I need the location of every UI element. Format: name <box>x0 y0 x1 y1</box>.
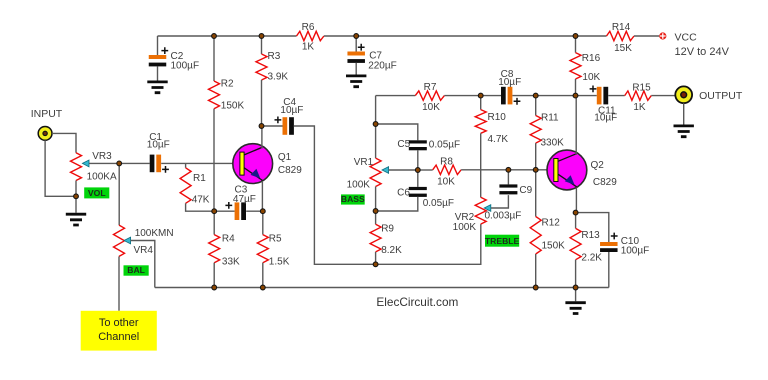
resistor R8 <box>418 169 433 171</box>
wire VR1 wiper to R8 node <box>389 169 418 171</box>
svg-text:8.2K: 8.2K <box>381 245 402 256</box>
svg-text:15K: 15K <box>614 43 632 54</box>
wire top supply rail left segment <box>158 35 297 37</box>
svg-text:BASS: BASS <box>341 194 365 204</box>
wire Q2 emitter <box>575 188 577 213</box>
node VR3 bottom <box>74 194 79 199</box>
svg-text:0.05µF: 0.05µF <box>423 198 454 209</box>
wire C4 feedback to bass/treble network <box>294 126 481 264</box>
capacitor C1 <box>119 162 150 164</box>
node R9 bottom on feedback line <box>373 262 378 267</box>
capacitor C5 <box>409 140 427 150</box>
resistor R9 <box>375 211 377 224</box>
wire mid rail left vertical <box>375 96 377 124</box>
svg-text:Q2: Q2 <box>591 160 605 171</box>
svg-text:VOL: VOL <box>88 188 106 198</box>
input jack J1 <box>38 126 52 140</box>
VCC terminal <box>659 32 666 39</box>
svg-text:R1: R1 <box>193 173 206 184</box>
svg-text:R3: R3 <box>268 51 281 62</box>
svg-text:R5: R5 <box>269 234 282 245</box>
node R5 ground <box>260 285 265 290</box>
svg-text:4.7K: 4.7K <box>488 134 509 145</box>
svg-text:Channel: Channel <box>98 331 139 343</box>
wire VR2 wiper to C9 bottom <box>491 195 509 208</box>
wire C1 node down to VR4 <box>118 163 120 225</box>
svg-text:0.003µF: 0.003µF <box>485 210 522 221</box>
svg-text:BAL: BAL <box>127 265 145 275</box>
node ground rail <box>573 285 578 290</box>
VR3 wiper arrow <box>82 160 89 167</box>
node R2 top <box>212 34 217 39</box>
node VR1 top network <box>373 122 378 127</box>
capacitor C2 <box>157 36 159 55</box>
svg-text:100KMN: 100KMN <box>135 228 174 239</box>
svg-text:0.05µF: 0.05µF <box>429 140 460 151</box>
capacitor C6 <box>417 170 419 187</box>
svg-text:R14: R14 <box>612 22 631 33</box>
svg-text:100K: 100K <box>453 222 477 233</box>
resistor R4 <box>213 211 215 234</box>
wire emitter node to C10 <box>576 213 609 242</box>
capacitor C10 <box>600 242 618 252</box>
svg-text:R8: R8 <box>440 156 453 167</box>
wire C1 to Q1 base <box>161 162 240 164</box>
svg-text:R11: R11 <box>541 113 559 124</box>
ground under C7 <box>346 76 366 87</box>
svg-text:C6: C6 <box>397 188 410 199</box>
svg-text:R15: R15 <box>632 82 651 93</box>
BAL label <box>124 265 149 276</box>
wire Q1 collector <box>261 126 263 149</box>
svg-text:R10: R10 <box>488 112 507 123</box>
svg-text:47µF: 47µF <box>233 194 256 205</box>
resistor R2 <box>213 36 215 81</box>
node R10 top <box>478 93 483 98</box>
To other Channel callout <box>81 311 157 351</box>
svg-text:ElecCircuit.com: ElecCircuit.com <box>376 295 458 309</box>
wire R8 to Q2 base <box>461 169 554 171</box>
node C9 top <box>506 167 511 172</box>
wire bottom ground rail <box>155 287 609 289</box>
wire C5 to wiper node <box>417 150 419 170</box>
resistor R1 <box>185 163 187 167</box>
output jack J2 <box>675 86 692 103</box>
svg-text:1.5K: 1.5K <box>269 256 290 267</box>
svg-text:100KA: 100KA <box>87 172 117 183</box>
VR4 wiper arrow <box>124 237 131 244</box>
node R16 top <box>573 34 578 39</box>
ground under VR3 <box>75 196 77 213</box>
capacitor C9 <box>507 170 509 185</box>
node R16 bottom - Q2 collector <box>573 93 578 98</box>
capacitor C7 <box>355 36 357 52</box>
transistor Q2 <box>547 150 587 190</box>
svg-text:100µF: 100µF <box>621 245 650 256</box>
node VR1 bottom - R9 <box>373 209 378 214</box>
node R3-C4-collector <box>259 124 264 129</box>
node Q2 emitter - R13/C10 <box>573 210 578 215</box>
VR1 wiper arrow <box>382 167 389 174</box>
node R11 top <box>533 93 538 98</box>
svg-text:47K: 47K <box>192 195 210 206</box>
resistor R11 <box>535 96 537 116</box>
wire C3 to emitter node <box>246 210 263 212</box>
BASS label <box>341 194 365 205</box>
wire VR3 wiper to C1 node <box>89 162 119 164</box>
capacitor C4 <box>262 125 283 127</box>
capacitor C3 <box>214 210 234 212</box>
svg-text:VR4: VR4 <box>134 245 154 256</box>
svg-text:1K: 1K <box>302 42 315 53</box>
wire R7 to C8 <box>444 95 501 97</box>
resistor R16 <box>575 36 577 53</box>
resistor R6 <box>297 31 324 40</box>
svg-text:10µF: 10µF <box>147 140 170 151</box>
wire Q1 emitter <box>261 181 263 211</box>
svg-text:R2: R2 <box>221 79 234 90</box>
resistor R10 <box>480 96 482 110</box>
node VR1 wiper - C5/C6/R8 <box>415 168 420 173</box>
svg-text:VCC: VCC <box>675 31 698 43</box>
node C1 out <box>117 161 122 166</box>
wire R15 to output jack <box>651 95 675 97</box>
node R4 ground <box>212 285 217 290</box>
svg-text:3.9K: 3.9K <box>268 72 289 83</box>
svg-text:VR3: VR3 <box>92 151 112 162</box>
node emitter-R4-C3 <box>212 209 217 214</box>
svg-text:33K: 33K <box>222 256 240 267</box>
svg-text:Q1: Q1 <box>278 152 292 163</box>
ground under output jack <box>674 126 694 137</box>
svg-text:10K: 10K <box>437 176 455 187</box>
ground under C2 <box>147 82 167 93</box>
svg-text:R4: R4 <box>222 234 235 245</box>
resistor R5 <box>262 211 264 234</box>
resistor R14 <box>607 31 635 40</box>
svg-text:R7: R7 <box>424 82 437 93</box>
transistor Q1 <box>233 144 273 184</box>
svg-text:VR1: VR1 <box>354 157 374 168</box>
svg-text:INPUT: INPUT <box>31 108 63 120</box>
wire top rail middle segment <box>324 35 607 37</box>
svg-text:10K: 10K <box>422 102 440 113</box>
resistor R12 <box>535 170 537 217</box>
wire input jack tip to VR3 top <box>52 133 76 152</box>
wire VR4 wiper to ground rail <box>131 241 155 288</box>
svg-text:C9: C9 <box>519 185 532 196</box>
svg-text:10µF: 10µF <box>280 105 303 116</box>
node R3 top <box>259 34 264 39</box>
ground main <box>575 288 577 302</box>
wire C8 to C11 <box>513 95 597 97</box>
svg-text:R12: R12 <box>542 218 561 229</box>
svg-text:R9: R9 <box>381 223 394 234</box>
potentiometer VR1 <box>375 124 377 158</box>
wire mid rail to R7 <box>376 95 416 97</box>
svg-text:OUTPUT: OUTPUT <box>699 90 743 102</box>
svg-text:10µF: 10µF <box>594 113 617 124</box>
wire to C5 <box>376 124 418 140</box>
wire C11 to R15 <box>608 95 625 97</box>
capacitor C8 <box>501 87 512 105</box>
potentiometer VR2 <box>475 197 486 224</box>
resistor R15 <box>625 91 652 100</box>
svg-text:10µF: 10µF <box>498 77 521 88</box>
svg-text:150K: 150K <box>542 240 566 251</box>
svg-text:2.2K: 2.2K <box>581 252 602 263</box>
svg-text:12V to 24V: 12V to 24V <box>675 46 730 58</box>
resistor R3 <box>261 36 263 54</box>
resistor R7 <box>415 91 444 100</box>
wire input jack sleeve to VR3 bottom <box>45 140 76 196</box>
svg-text:C829: C829 <box>278 165 302 176</box>
capacitor C11 <box>597 87 608 105</box>
svg-text:100K: 100K <box>347 180 371 191</box>
wire R14 to VCC terminal <box>634 35 659 37</box>
svg-text:150K: 150K <box>221 101 245 112</box>
wire R2 bottom to emitter node <box>213 109 215 212</box>
svg-text:100µF: 100µF <box>171 61 200 72</box>
node emitter-R5 <box>260 209 265 214</box>
resistor R13 <box>575 213 577 229</box>
svg-text:330K: 330K <box>541 137 565 148</box>
wire Q2 collector to R16 node <box>575 96 577 155</box>
potentiometer VR4 <box>114 225 125 256</box>
svg-text:To other: To other <box>99 317 139 329</box>
svg-text:1K: 1K <box>633 102 646 113</box>
wire VR4 bottom to other channel <box>118 256 120 310</box>
svg-text:R13: R13 <box>581 230 600 241</box>
wire output jack to ground <box>683 103 685 124</box>
svg-text:R16: R16 <box>582 53 601 64</box>
svg-text:R6: R6 <box>302 22 315 33</box>
svg-text:220µF: 220µF <box>368 60 397 71</box>
svg-text:10K: 10K <box>582 72 600 83</box>
VR2 wiper arrow <box>484 205 491 212</box>
node R12 ground <box>533 285 538 290</box>
node Q2 base - R11/R12 <box>533 167 538 172</box>
potentiometer VR3 <box>71 153 82 181</box>
svg-text:C5: C5 <box>397 139 410 150</box>
TREBLE label <box>485 235 520 247</box>
VOL label <box>84 187 109 198</box>
svg-text:C829: C829 <box>593 177 617 188</box>
node C7 top <box>354 34 359 39</box>
svg-text:TREBLE: TREBLE <box>485 236 520 246</box>
